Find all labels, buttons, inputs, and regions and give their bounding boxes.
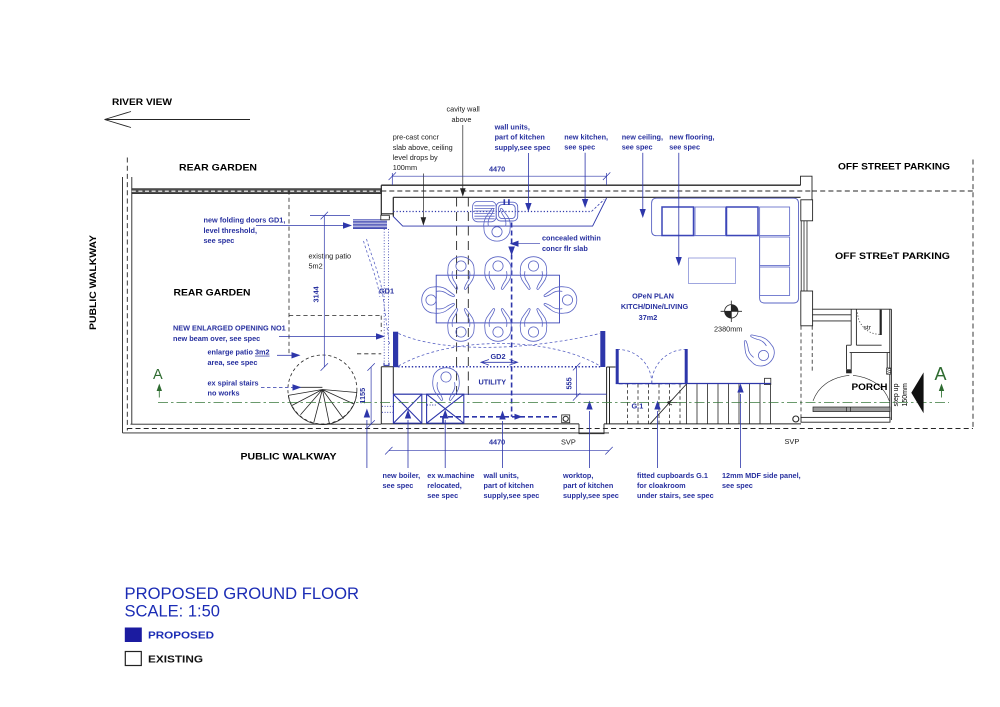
svg-text:worktop,: worktop, [562, 471, 593, 480]
svg-text:ex w.machine: ex w.machine [427, 471, 474, 480]
wire ex spiral stairs dashed leader [261, 384, 302, 390]
node section marker A east [935, 364, 947, 398]
svg-text:GD2: GD2 [491, 352, 506, 361]
node RIVER VIEW label [112, 97, 172, 108]
svg-text:2380mm: 2380mm [714, 325, 742, 334]
svg-text:OFF STREET PARKING: OFF STREET PARKING [838, 162, 950, 173]
wire dim 4470 top [389, 172, 611, 185]
node ex spiral stairs annotation [208, 378, 259, 397]
svg-text:part of kitchen: part of kitchen [484, 481, 534, 490]
svg-text:4470: 4470 [489, 165, 505, 174]
wire public walkway south edge lines [123, 424, 610, 433]
wire dim 555 vertical [573, 363, 580, 401]
furniture sofa outline [652, 198, 799, 303]
svg-text:fitted cupboards G.1: fitted cupboards G.1 [637, 471, 708, 480]
svg-text:new ceiling,: new ceiling, [622, 133, 663, 142]
node section arrow black triangle [911, 372, 923, 413]
svg-text:PROPOSED GROUND FLOOR: PROPOSED GROUND FLOOR [125, 584, 360, 603]
wire pipe route arrows [508, 241, 522, 420]
wire new ceiling leader [640, 153, 646, 218]
furniture coffee table [689, 258, 736, 284]
node enlarge patio annotation [208, 348, 270, 367]
svg-text:PROPOSED: PROPOSED [148, 631, 214, 642]
wall east below pier dashed opening [801, 326, 812, 418]
wire new kitchen leader [582, 153, 588, 208]
svg-text:slab above, ceiling: slab above, ceiling [393, 143, 453, 152]
node step up 150mm label [893, 383, 909, 407]
wire dim 1155 vertical [367, 363, 374, 428]
wire pre-cast leader [421, 174, 427, 226]
wire worktop leader [586, 401, 592, 469]
node OPEN PLAN label [621, 292, 689, 323]
wire new folding doors leader [256, 222, 352, 228]
door GD2 sliding track dotted [398, 366, 600, 368]
wire section line A-A green [158, 401, 949, 403]
wire new flooring leader [676, 153, 682, 266]
svg-text:supply,see spec: supply,see spec [495, 143, 551, 152]
svg-text:part of kitchen: part of kitchen [495, 133, 545, 142]
utility worktop line [393, 393, 606, 395]
svg-text:REAR GARDEN: REAR GARDEN [174, 288, 251, 299]
stair understair cupboard dashed treads [628, 384, 681, 424]
node SVP symbol west [562, 415, 570, 423]
svg-text:pre-cast concr: pre-cast concr [393, 133, 440, 142]
svg-text:new boiler,: new boiler, [383, 471, 421, 480]
svg-text:see spec: see spec [564, 143, 595, 152]
porch threshold band [813, 407, 890, 412]
wire site boundary dashed north-east [812, 190, 973, 192]
svg-text:part of kitchen: part of kitchen [563, 481, 613, 490]
svg-text:level drops by: level drops by [393, 153, 438, 162]
svg-text:PORCH: PORCH [852, 382, 888, 392]
svg-text:see spec: see spec [204, 236, 235, 245]
node new flooring annotation [669, 133, 714, 152]
wall north-east corner stub [801, 176, 813, 221]
node cavity wall above label [447, 105, 481, 125]
furniture sofa cushions right column [760, 237, 790, 296]
node concealed within label [542, 234, 601, 253]
svg-text:SVP: SVP [561, 438, 576, 447]
wall new opening jamb west [393, 332, 398, 368]
svg-text:see spec: see spec [383, 481, 414, 490]
wire GD2 double arrow [481, 360, 518, 366]
stair newel square [765, 378, 771, 384]
svg-text:area, see spec: area, see spec [208, 358, 258, 367]
cupboard front dashed blue [619, 383, 685, 385]
svg-text:PUBLIC WALKWAY: PUBLIC WALKWAY [88, 234, 99, 330]
svg-text:37m2: 37m2 [639, 313, 658, 322]
svg-text:enlarge patio 3m2: enlarge patio 3m2 [208, 348, 270, 357]
svg-text:new beam over, see spec: new beam over, see spec [173, 334, 260, 343]
wall building north outer [381, 184, 800, 186]
node legend existing swatch [125, 652, 141, 666]
wire wall units bottom leader [499, 411, 505, 469]
node section marker A west [153, 367, 163, 398]
door porch swing arcs [813, 375, 889, 401]
person diner top 3 [520, 257, 547, 290]
wall building north inner [393, 196, 800, 198]
wire 12mm MDF leader [737, 384, 743, 469]
node worktop annotation [562, 471, 619, 500]
person diner bottom 2 [485, 309, 512, 342]
wall new opening jamb east [600, 331, 605, 367]
node existing patio label [309, 252, 352, 271]
stair diagonal split line [650, 384, 687, 424]
appliance washing machine box [427, 394, 464, 423]
node new folding doors annotation [204, 216, 286, 245]
svg-text:150mm: 150mm [902, 383, 909, 407]
door GD1 folding stack [353, 215, 389, 228]
svg-text:concr flr slab: concr flr slab [542, 244, 588, 253]
person diner bottom 3 [520, 309, 547, 342]
node new enlarged opening annotation [173, 324, 286, 343]
cupboard cloakroom jamb west [616, 349, 619, 384]
svg-text:REAR GARDEN: REAR GARDEN [179, 163, 257, 174]
wire site boundary dashed bottom [127, 428, 973, 430]
node new kitchen annotation [564, 133, 608, 152]
person diner top 2 [485, 257, 512, 290]
door cloakroom dashed arcs [618, 350, 685, 384]
wire patio dashed boundary [289, 191, 381, 356]
svg-text:supply,see spec: supply,see spec [484, 491, 540, 500]
wire new enlarged opening leader [279, 333, 385, 339]
stair rail proposed blue [616, 383, 771, 385]
wire property dashed line through building [381, 190, 812, 192]
furniture sofa cushions top row [662, 207, 790, 236]
svg-text:wall units,: wall units, [494, 123, 530, 132]
svg-text:PUBLIC WALKWAY: PUBLIC WALKWAY [241, 452, 338, 463]
svg-text:OPeN PLAN: OPeN PLAN [632, 292, 674, 301]
node fitted cupboards annotation [637, 471, 714, 500]
wire enlarge patio leader [277, 352, 301, 358]
svg-text:ex spiral stairs: ex spiral stairs [208, 378, 259, 387]
svg-text:no works: no works [208, 388, 240, 397]
svg-text:12mm MDF side panel,: 12mm MDF side panel, [722, 471, 801, 480]
svg-text:KITCH/DINe/LIVING: KITCH/DINe/LIVING [621, 302, 689, 311]
wall building south line [381, 423, 801, 425]
wire cavity wall leader [460, 125, 466, 197]
svg-text:concealed within: concealed within [542, 234, 601, 243]
svg-text:wall units,: wall units, [483, 471, 519, 480]
kitchen sink unit [496, 199, 518, 221]
wire cavity wall dashed pair [457, 198, 469, 398]
door GD1 track dotted [384, 229, 389, 365]
wall east window piers [801, 200, 813, 326]
svg-text:SCALE: 1:50: SCALE: 1:50 [125, 602, 221, 621]
svg-text:see spec: see spec [722, 481, 753, 490]
stair direction arrow [667, 400, 677, 405]
svg-text:3144: 3144 [312, 285, 321, 302]
node new boiler annotation [383, 471, 421, 490]
svg-text:for cloakroom: for cloakroom [637, 481, 686, 490]
wire public walkway west edge lines [123, 177, 132, 433]
stair treads solid [687, 379, 771, 424]
stair spiral existing [288, 355, 357, 425]
wire fitted cupboards leader [654, 401, 660, 469]
node ceiling height target symbol [721, 301, 742, 322]
wall porch top lines [812, 309, 891, 321]
node wall units annotation [494, 123, 551, 152]
node ex w.machine annotation [427, 471, 474, 500]
kitchen worktop back dash diagonal [592, 200, 605, 212]
svg-text:new folding doors GD1,: new folding doors GD1, [204, 216, 286, 225]
svg-text:see spec: see spec [669, 143, 700, 152]
kitchen worktop outline [393, 198, 606, 226]
furniture dining table [436, 275, 559, 323]
window east glazing lines [801, 221, 807, 291]
person diner bottom 1 [448, 309, 475, 342]
wire dim 3144 vertical [310, 212, 350, 371]
person cook at sink [484, 208, 511, 241]
svg-text:see spec: see spec [427, 491, 458, 500]
svg-text:100mm: 100mm [393, 163, 417, 172]
svg-text:555: 555 [565, 377, 574, 389]
wall building west upper [381, 185, 393, 217]
svg-text:GD1: GD1 [379, 287, 394, 296]
svg-text:level threshold,: level threshold, [204, 226, 258, 235]
kitchen hob unit [473, 201, 497, 221]
svg-text:UTILITY: UTILITY [479, 378, 507, 387]
kitchen worktop back dotted [393, 211, 591, 213]
svg-text:see spec: see spec [622, 143, 653, 152]
wall utility west [381, 367, 393, 424]
appliance boiler box [393, 394, 421, 423]
wall porch south [801, 417, 890, 422]
svg-text:5m2: 5m2 [309, 262, 323, 271]
wire wall units leader [525, 153, 531, 212]
svg-text:RIVER VIEW: RIVER VIEW [112, 97, 172, 108]
svg-text:above: above [452, 115, 472, 124]
wire concealed leader line [519, 243, 541, 245]
node pre-cast concr slab label [393, 133, 453, 172]
person diner top 1 [448, 257, 475, 290]
node wall units bottom annotation [483, 471, 540, 500]
svg-text:str: str [864, 325, 872, 332]
wire ex w.machine leader [442, 410, 448, 469]
door str swing arc dotted [858, 313, 880, 335]
svg-text:supply,see spec: supply,see spec [563, 491, 619, 500]
svg-text:G.1: G.1 [632, 402, 644, 411]
node legend proposed swatch [125, 628, 142, 643]
wire new boiler leaders [364, 409, 412, 469]
cupboard cloakroom jamb east [685, 349, 688, 384]
wall svp recess [579, 424, 604, 434]
svg-text:existing patio: existing patio [309, 252, 352, 261]
svg-text:under stairs, see spec: under stairs, see spec [637, 491, 714, 500]
svg-text:EXISTING: EXISTING [148, 655, 203, 666]
svg-text:NEW ENLARGED OPENING NO1: NEW ENLARGED OPENING NO1 [173, 324, 286, 333]
wire dim 4470 bottom [385, 447, 613, 455]
wire river-view arrow [105, 112, 251, 128]
svg-text:OFF STREeT PARKING: OFF STREeT PARKING [835, 251, 950, 262]
wall utility-hall divider [607, 367, 616, 424]
svg-text:1155: 1155 [358, 388, 367, 404]
svg-text:new kitchen,: new kitchen, [564, 133, 608, 142]
wire pipe dotted wall links [382, 405, 437, 412]
door GD2 swing dashed curves [399, 334, 601, 367]
wire rear garden wall hatched band [132, 189, 381, 194]
wire site boundary dashed west [126, 158, 128, 431]
node new ceiling annotation [622, 133, 663, 152]
room str walls [851, 309, 891, 421]
svg-text:A: A [153, 367, 163, 383]
svg-text:step up: step up [893, 383, 900, 406]
svg-text:relocated,: relocated, [427, 481, 461, 490]
svg-text:new flooring,: new flooring, [669, 133, 714, 142]
wall porch inner stubs [846, 345, 891, 374]
person diner right [544, 287, 577, 314]
person utility [433, 368, 460, 401]
node SVP symbol east [793, 416, 799, 422]
svg-text:SVP: SVP [785, 437, 800, 446]
person living room [738, 329, 780, 371]
person diner left [422, 287, 455, 314]
svg-text:cavity wall: cavity wall [447, 105, 481, 114]
door GD1 swing dashed curve [364, 239, 390, 344]
svg-text:A: A [935, 364, 947, 384]
node 12mm MDF annotation [722, 471, 801, 490]
wire site boundary dashed east [972, 160, 974, 429]
wire concealed pipe dashed route [440, 223, 559, 424]
